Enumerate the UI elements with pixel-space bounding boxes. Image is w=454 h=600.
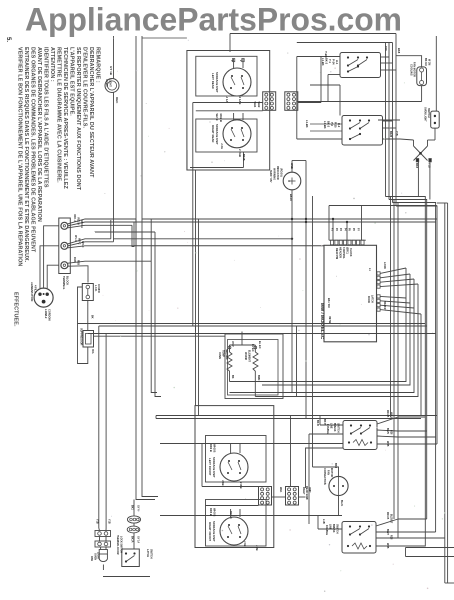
wire bottom unit bus B <box>206 505 259 507</box>
svg-text:Y1B: Y1B <box>395 131 398 136</box>
wire v113 down <box>113 238 115 242</box>
svg-text:J 1A: J 1A <box>225 97 229 103</box>
terminal block TB1 <box>59 218 71 274</box>
enclosure surface units top (outer) <box>187 51 270 171</box>
wire SW1 out right <box>381 57 397 70</box>
surface unit receptacle 2 <box>211 113 251 148</box>
svg-text:L'APPAREIL EST EQUIPE.: L'APPAREIL EST EQUIPE. <box>68 47 74 116</box>
wire v192 <box>192 174 194 326</box>
svg-text:ENTRAINER DES RISQUES DANS LE: ENTRAINER DES RISQUES DANS LE FONCTIONNE… <box>23 47 29 263</box>
svg-text:BK1A: BK1A <box>131 536 134 543</box>
wire v151 <box>151 219 157 393</box>
svg-text:ATTENTION :: ATTENTION : <box>49 47 55 82</box>
svg-text:L 101: L 101 <box>94 285 97 292</box>
connector ERC header <box>329 240 366 245</box>
svg-text:REMARQUE :: REMARQUE : <box>94 47 100 83</box>
svg-text:BREAK: BREAK <box>333 423 336 432</box>
labels P3 P4 <box>279 486 311 500</box>
svg-text:DOUBLE: DOUBLE <box>326 424 329 434</box>
svg-text:LOCK SWITCH: LOCK SWITCH <box>119 536 122 553</box>
svg-text:RD3 B: RD3 B <box>209 508 213 516</box>
connector plug P4 <box>286 487 299 506</box>
connector plug P3 <box>259 487 272 506</box>
svg-text:BK / 1M: BK / 1M <box>327 298 331 308</box>
wire fan v1 <box>230 268 407 382</box>
svg-text:(ROJA): (ROJA) <box>280 168 283 177</box>
svg-text:BK B: BK B <box>323 419 326 425</box>
switch door lock <box>116 535 139 567</box>
label WH1 WH2 <box>253 102 261 108</box>
wire bus h326 <box>99 325 427 327</box>
svg-text:MOTOR: MOTOR <box>330 468 333 477</box>
wire v132 jog <box>132 225 134 246</box>
svg-text:Y-1: Y-1 <box>328 59 332 63</box>
svg-text:R28: R28 <box>390 430 393 435</box>
wire v195 <box>195 170 197 406</box>
wire v 389 <box>388 43 390 200</box>
wire v398 <box>391 197 399 539</box>
svg-text:BK25/27: BK25/27 <box>383 301 386 311</box>
motor convection <box>313 463 349 509</box>
connector inline B <box>95 541 111 547</box>
svg-text:LEFT FRONT: LEFT FRONT <box>208 458 212 476</box>
label W2B RD2B <box>215 114 223 122</box>
wire bend r2 <box>389 200 427 520</box>
svg-text:BK: BK <box>91 315 94 319</box>
svg-text:RD3 A: RD3 A <box>80 221 83 229</box>
watermark AppliancePartsPros.com <box>25 2 402 38</box>
oven lamp bulb <box>94 547 108 562</box>
surface unit receptacle 4 <box>208 509 248 545</box>
svg-text:INDICATOR: INDICATOR <box>276 166 279 180</box>
svg-text:SURF 'ON': SURF 'ON' <box>269 170 272 183</box>
svg-text:BK: BK <box>231 375 234 379</box>
svg-text:CONTROL: CONTROL <box>342 247 345 259</box>
svg-text:DES ORGANES DE COMMANDES. LES: DES ORGANES DE COMMANDES. LES PROBLEMES … <box>29 47 35 253</box>
wire under bulb <box>102 565 104 571</box>
svg-text:4 FILS: 4 FILS <box>34 285 38 293</box>
label RD1 B bus <box>229 511 232 519</box>
svg-text:R1B: R1B <box>73 257 76 262</box>
svg-text:RD2 B: RD2 B <box>219 114 223 122</box>
svg-text:BL25: BL25 <box>386 428 389 435</box>
capacitor C1 <box>82 284 100 301</box>
svg-text:TEMP: TEMP <box>222 350 225 357</box>
wire v110 <box>110 220 112 239</box>
connector ERC right lower <box>377 295 380 311</box>
svg-text:W2 B: W2 B <box>215 114 219 121</box>
svg-text:W1-C: W1-C <box>74 235 77 242</box>
svg-text:BK 1M: BK 1M <box>424 58 427 65</box>
label J1A <box>225 97 242 105</box>
svg-text:SWITCH: SWITCH <box>337 423 340 433</box>
svg-text:397B: 397B <box>328 316 332 324</box>
svg-text:BREAK: BREAK <box>332 524 335 533</box>
svg-text:COOLING: COOLING <box>410 64 413 76</box>
switch SW3 (bake relay) <box>343 421 377 450</box>
svg-text:RD2 B: RD2 B <box>209 444 213 452</box>
svg-text:R2B: R2B <box>77 260 80 265</box>
wire SW4 left in <box>160 516 342 530</box>
svg-text:IDENTIFIER TOUS LES FILS A L'A: IDENTIFIER TOUS LES FILS A L'AIDE D'ETIQ… <box>42 47 48 188</box>
labels SW1 left <box>321 58 339 66</box>
wire X down pair <box>418 162 430 200</box>
svg-text:J 2A: J 2A <box>220 143 224 149</box>
svg-text:OVEN LIGHT: OVEN LIGHT <box>424 107 427 122</box>
svg-text:WH2 B: WH2 B <box>213 444 217 452</box>
svg-text:BRN: BRN <box>257 375 260 380</box>
label latch sw <box>146 549 152 559</box>
svg-text:DOUBLE: DOUBLE <box>325 525 328 535</box>
surface unit receptacle 1 <box>211 59 251 97</box>
svg-text:TERMINAL: TERMINAL <box>62 276 66 290</box>
wire bottom right corner <box>406 548 454 584</box>
svg-text:L1B: L1B <box>322 519 325 524</box>
wire v198 <box>198 219 200 416</box>
wire bottom unit bus A <box>202 444 259 487</box>
suppressor FL1 <box>80 328 95 354</box>
svg-text:BLOCK: BLOCK <box>66 276 70 285</box>
svg-text:UNIT: UNIT <box>308 487 311 493</box>
enclosure surface units bottom (outer) <box>195 406 274 548</box>
wire chain1 feeds <box>96 519 111 531</box>
svg-text:SE REPORTER UNIQUEMENT AUX FON: SE REPORTER UNIQUEMENT AUX FONCTIONS DON… <box>75 47 81 191</box>
wire v292 <box>291 216 293 393</box>
wire ERC fan upper <box>368 262 418 287</box>
labels SW2 left <box>323 121 341 129</box>
wire h205 <box>329 206 437 241</box>
svg-text:BK18: BK18 <box>289 194 293 201</box>
svg-text:R28: R28 <box>390 535 393 540</box>
wire v312 <box>312 196 314 467</box>
connector ERC right upper <box>377 272 380 288</box>
svg-text:L1-BK: L1-BK <box>305 120 309 128</box>
enclosure bottom unit 1 (inner) <box>206 436 267 483</box>
wire top feed with loop <box>105 36 119 238</box>
svg-text:OVEN: OVEN <box>105 79 109 86</box>
svg-text:D'ENLEVER LE COUVRE-FILS.: D'ENLEVER LE COUVRE-FILS. <box>81 47 87 128</box>
controller ERC box <box>324 245 377 341</box>
label J2A <box>220 143 242 157</box>
wire bottom baseline <box>103 576 150 578</box>
wire suppressor loop <box>78 287 88 364</box>
wire h232 <box>95 231 155 234</box>
svg-text:Y-BR: Y-BR <box>324 51 328 58</box>
svg-text:RIGHT: RIGHT <box>302 487 305 495</box>
svg-text:THERMAL DOOR: THERMAL DOOR <box>116 535 119 555</box>
label MW MOD ELEC <box>320 303 325 340</box>
wire SW2 out right <box>383 121 401 139</box>
wire D1 stub <box>389 36 436 140</box>
svg-text:H-1: H-1 <box>335 60 339 65</box>
svg-text:MW / MOD ELEC: MW / MOD ELEC <box>320 303 325 340</box>
wire SW2 in left <box>297 124 342 139</box>
wire TB1 L1 fan <box>68 215 136 229</box>
wire v140 down <box>142 243 158 497</box>
wire v103 <box>105 334 107 529</box>
svg-text:2 2AB: 2 2AB <box>238 149 242 157</box>
svg-text:RD1 A: RD1 A <box>73 215 76 223</box>
wire bus h331 <box>88 333 436 335</box>
svg-text:W2B: W2B <box>386 543 389 549</box>
connector inline A <box>95 531 111 537</box>
svg-text:WH1: WH1 <box>279 487 282 493</box>
svg-text:BK-2: BK-2 <box>325 58 329 65</box>
wire P4 right <box>272 416 306 498</box>
fan motor F1 <box>396 56 427 102</box>
wire TB1 N fan <box>68 235 134 248</box>
svg-text:W3-C: W3-C <box>81 241 84 248</box>
svg-text:V/GY: V/GY <box>231 341 234 347</box>
switch SW2 (right front infinite) <box>342 116 383 146</box>
svg-text:RIGHT FRONT: RIGHT FRONT <box>208 522 212 541</box>
svg-text:WH1: WH1 <box>253 102 257 108</box>
svg-text:BL27: BL27 <box>386 529 389 536</box>
label BK B 2 <box>316 420 319 426</box>
door switch D1 <box>424 107 440 128</box>
svg-text:WH2: WH2 <box>257 102 261 108</box>
wire main bus h215 <box>142 218 437 220</box>
svg-text:DOOR: DOOR <box>367 296 369 303</box>
svg-text:BK8: BK8 <box>334 463 337 469</box>
power plug <box>30 226 59 321</box>
svg-text:VERIFIER LE BON FONCTIONNEMENT: VERIFIER LE BON FONCTIONNEMENT DE L'APPA… <box>16 47 22 266</box>
labels SW3 left <box>323 419 340 434</box>
wire unit bus B <box>196 110 263 112</box>
svg-text:REMETTRE LE DIAGRAMME AVEC LA: REMETTRE LE DIAGRAMME AVEC LA CUISINIERE… <box>55 47 61 183</box>
svg-text:CONVECTION: CONVECTION <box>323 468 326 485</box>
connector oval A <box>127 516 140 523</box>
resistor warming element <box>244 341 262 397</box>
wire v100 <box>98 326 100 528</box>
svg-text:CLOCK: CLOCK <box>349 248 352 257</box>
svg-text:BK25: BK25 <box>389 131 392 138</box>
svg-text:BK8: BK8 <box>415 163 418 169</box>
svg-text:REAR SURF: REAR SURF <box>305 486 308 500</box>
wire v134 <box>133 222 135 247</box>
wire P2 to right <box>298 57 321 103</box>
wire bus h239 <box>114 238 294 240</box>
wire ERC fan lower <box>367 295 421 314</box>
svg-text:RD2 A: RD2 A <box>77 218 80 226</box>
svg-text:GY 1A: GY 1A <box>137 536 140 543</box>
svg-text:5.: 5. <box>5 37 11 42</box>
svg-text:RE19 PM: RE19 PM <box>335 248 339 259</box>
svg-text:J 1B: J 1B <box>221 480 225 486</box>
svg-text:LIGHT: LIGHT <box>109 79 113 87</box>
label chain2 <box>131 536 140 543</box>
wire fan v4 <box>255 284 418 397</box>
svg-text:BL21: BL21 <box>340 500 343 507</box>
lamp surface indicator <box>269 161 306 216</box>
resistor oven sensor <box>218 341 234 382</box>
svg-text:LATCH: LATCH <box>146 549 149 557</box>
wire bus down left-1 <box>135 36 137 246</box>
svg-text:30A: 30A <box>91 349 94 354</box>
svg-text:W2-C: W2-C <box>78 238 81 245</box>
svg-text:WARM: WARM <box>244 352 247 360</box>
wire bend r1 <box>386 197 426 547</box>
wire v309 <box>309 434 343 524</box>
label J1B a <box>221 480 243 489</box>
svg-text:TECHNICIEN DE SERVICE APRES-VE: TECHNICIEN DE SERVICE APRES-VENTE : VEUI… <box>62 47 68 189</box>
enclosure top unit 1 (inner) <box>196 56 257 96</box>
svg-text:J 2B: J 2B <box>255 545 259 551</box>
label terminal block <box>62 276 70 290</box>
wire unit bus A <box>193 103 263 175</box>
wire SW3 left in <box>160 416 343 444</box>
wire X up right <box>428 140 436 146</box>
svg-text:W2B: W2B <box>386 441 389 447</box>
svg-text:Y18: Y18 <box>384 46 388 51</box>
svg-text:ALIMENTATION: ALIMENTATION <box>30 282 34 301</box>
svg-text:EFFECTUEE.: EFFECTUEE. <box>13 292 19 327</box>
labels SW1 right <box>384 46 401 54</box>
wire v 392.5 <box>392 43 394 203</box>
svg-text:BK1B: BK1B <box>242 154 245 161</box>
svg-text:Y1B: Y1B <box>108 519 111 524</box>
wire main bus h216 <box>134 221 436 223</box>
svg-text:P-24: P-24 <box>332 59 336 65</box>
svg-text:SWITCH: SWITCH <box>149 549 152 559</box>
svg-text:P-25: P-25 <box>334 122 338 128</box>
wire SW3 right fan <box>377 410 398 447</box>
label BK cap <box>91 315 94 319</box>
svg-text:BL25/27: BL25/27 <box>390 514 393 524</box>
wire bus h334 <box>94 335 226 337</box>
label ERC text <box>335 247 352 259</box>
label F1 wires <box>424 58 431 65</box>
wire top watermark h <box>230 34 396 53</box>
wire v 396 <box>395 34 397 207</box>
svg-text:LATCH: LATCH <box>371 295 374 303</box>
svg-text:L1/N/L2: L1/N/L2 <box>44 309 48 319</box>
svg-text:SUPPRESSOR: SUPPRESSOR <box>80 328 83 346</box>
label 397B <box>328 316 332 324</box>
wire box bottom h170 <box>187 150 245 170</box>
svg-text:RD1 B: RD1 B <box>386 410 389 417</box>
label L1-BK <box>305 120 309 128</box>
svg-text:AVANT DE DEBRANCHER L'APPAREIL: AVANT DE DEBRANCHER L'APPAREIL LORS DE L… <box>36 47 42 222</box>
switch SW4 (broil relay) <box>342 522 376 554</box>
svg-text:EL EC: EL EC <box>258 341 262 349</box>
wire TB1 L2 fan <box>68 257 151 283</box>
wire top h1 <box>297 57 340 140</box>
svg-text:RD1 B: RD1 B <box>386 512 389 519</box>
svg-text:W1B: W1B <box>290 163 294 169</box>
svg-text:SWITCH: SWITCH <box>427 108 430 118</box>
wire v306 <box>305 161 307 419</box>
wire bus h418 <box>156 418 421 420</box>
svg-text:10 MFD: 10 MFD <box>97 284 100 293</box>
wire v 385.5 <box>386 43 390 197</box>
wire right edge pair <box>437 203 448 583</box>
svg-text:(ERC): (ERC) <box>346 247 349 254</box>
wire chain2 feed <box>131 500 140 516</box>
svg-text:GY 1B: GY 1B <box>109 66 113 76</box>
wire inline link <box>100 537 107 542</box>
labels ERC header pins <box>331 228 359 232</box>
enclosure top unit 2 (inner) <box>196 119 257 152</box>
svg-text:HEADER: HEADER <box>339 247 343 258</box>
wire bend r4 <box>396 206 437 444</box>
svg-text:2 1AB: 2 1AB <box>238 97 242 105</box>
svg-text:LIGHT: LIGHT <box>97 552 100 560</box>
switch SW1 (left front infinite) <box>340 53 381 78</box>
connector plug P1 <box>263 92 276 111</box>
svg-text:CORDON: CORDON <box>48 309 52 321</box>
svg-text:LEFT REAR: LEFT REAR <box>211 73 215 89</box>
wire bus down left-2 <box>141 36 143 243</box>
wire SW4 right fan <box>376 512 398 549</box>
wire X up left <box>400 139 414 146</box>
svg-text:GY A: GY A <box>137 505 140 511</box>
wire v137 down <box>136 219 155 500</box>
svg-text:SURFACE UNIT: SURFACE UNIT <box>212 457 216 478</box>
svg-text:Y1B: Y1B <box>96 519 99 524</box>
svg-text:DEBRANCHER L'APPAREIL DU SECTE: DEBRANCHER L'APPAREIL DU SECTEUR AVANT <box>88 47 94 178</box>
enclosure element box outer <box>225 334 283 399</box>
svg-text:40W: 40W <box>90 556 93 562</box>
wire v155 <box>155 232 161 397</box>
surface unit receptacle 3 <box>208 444 248 481</box>
wire v296 low <box>296 326 298 397</box>
svg-text:OVEN: OVEN <box>218 352 221 359</box>
svg-text:FAN: FAN <box>327 470 330 475</box>
wire v305 <box>306 448 344 488</box>
enclosure bottom unit 2 (inner) <box>206 500 267 547</box>
wire top connect <box>142 37 187 39</box>
svg-text:L2 RD: L2 RD <box>383 262 386 269</box>
svg-text:FAN MOTOR: FAN MOTOR <box>413 62 416 77</box>
note French safety text (rotated) <box>5 37 100 327</box>
svg-text:SURFACE UNIT: SURFACE UNIT <box>215 124 219 145</box>
svg-text:J 1B: J 1B <box>243 541 247 547</box>
wire v394 <box>393 200 395 520</box>
svg-text:WH3 B: WH3 B <box>213 508 217 516</box>
svg-text:REC: REC <box>115 97 119 104</box>
enclosure element box inner <box>228 340 279 396</box>
wire bus h415 <box>156 416 437 419</box>
wire mid h 99.5 <box>297 102 422 121</box>
label BK 1M <box>327 298 331 308</box>
svg-text:SURFACE UNIT: SURFACE UNIT <box>215 72 219 93</box>
junction X cross <box>414 146 432 169</box>
label J1B b <box>243 541 259 551</box>
wire bus h323 <box>78 323 426 325</box>
svg-text:2 WB: 2 WB <box>239 482 243 489</box>
connector plug P2 <box>285 92 298 111</box>
svg-text:LINE: LINE <box>330 423 333 429</box>
svg-text:BK B: BK B <box>316 420 319 426</box>
wire cap down <box>87 301 89 331</box>
svg-text:WARNING: WARNING <box>273 168 276 180</box>
svg-text:AppliancePartsPros.com: AppliancePartsPros.com <box>25 2 402 38</box>
svg-text:L1-BK: L1-BK <box>323 121 327 129</box>
svg-text:L1-BK: L1-BK <box>321 58 325 66</box>
labels SW4 left <box>322 519 339 535</box>
wire v195b <box>195 326 197 332</box>
label RD2B WH2B <box>209 444 217 452</box>
svg-text:SURFACE UNIT: SURFACE UNIT <box>212 521 216 542</box>
label lamp <box>90 556 93 562</box>
svg-text:WH B: WH B <box>390 412 393 419</box>
wire v312b <box>338 509 340 516</box>
wire h168 inner <box>190 152 245 168</box>
connector oval B <box>127 526 140 533</box>
svg-text:RIGHT REAR: RIGHT REAR <box>211 125 215 142</box>
wire fan v3 <box>230 279 415 393</box>
